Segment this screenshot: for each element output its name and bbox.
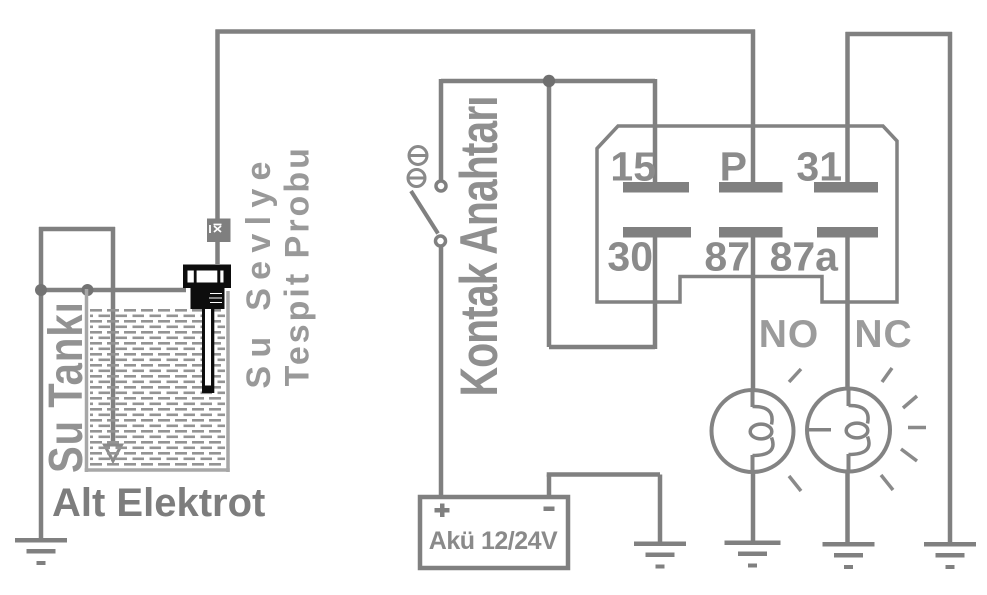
wire vertical switch top [439, 79, 444, 181]
svg-text:87: 87 [704, 234, 750, 280]
ground left [15, 538, 67, 565]
wire NC lamp to ground [845, 454, 850, 542]
battery Aku 12/24V [420, 497, 568, 568]
wire vertical junction to bottom [547, 79, 552, 347]
wire switch lower vertical to battery [439, 245, 444, 497]
relay pin bar P [719, 182, 783, 193]
svg-text:Su Sevlye: Su Sevlye [240, 153, 278, 388]
junction dot left wire [35, 284, 47, 296]
ground NC lamp [823, 542, 875, 569]
relay pin bar 30 [623, 227, 691, 238]
svg-text:Alt Elektrot: Alt Elektrot [52, 481, 265, 525]
relay pin bar 31 [814, 182, 878, 193]
junction dot tank wall [82, 284, 94, 296]
wire NO lamp to ground [751, 455, 756, 541]
wire vertical down to relay pin P [751, 30, 756, 187]
rays around NC lamp [789, 368, 926, 491]
tank left wall [85, 289, 89, 472]
svg-text:NO: NO [759, 313, 820, 356]
ground far right [924, 542, 976, 569]
svg-text:30: 30 [607, 234, 653, 280]
tank bottom [85, 468, 230, 472]
lower electrode arrowhead [105, 445, 122, 461]
svg-text:Su Tankı: Su Tankı [40, 301, 93, 473]
water hatching [90, 309, 225, 468]
wire far right vertical to ground [948, 32, 953, 542]
wire vertical down to relay pin 31 [845, 32, 850, 186]
relay pin bar 87a [817, 227, 878, 238]
wire battery minus down to ground [658, 475, 663, 543]
wire switch horizontal to relay pin 15 [441, 79, 655, 84]
svg-text:Akü 12/24V: Akü 12/24V [429, 527, 558, 555]
junction dot switch line [543, 75, 555, 87]
lamp NC [807, 389, 890, 472]
switch blade [411, 191, 438, 234]
wire lower electrode vertical [111, 227, 116, 448]
svg-text:P: P [720, 144, 747, 190]
switch contact circle top [436, 181, 446, 191]
svg-text:NC: NC [854, 313, 912, 356]
wire left top horizontal [39, 227, 115, 232]
wire battery minus up [547, 475, 552, 498]
probe Su Seviye Tespit Probu body [183, 265, 231, 394]
tank right wall [226, 291, 230, 472]
wire left vertical to ground [39, 227, 44, 538]
relay pin bar 15 [623, 182, 689, 193]
relay outline [597, 126, 897, 302]
connector square on probe wire [207, 219, 231, 243]
wire top right horizontal [846, 32, 953, 37]
wire vertical pin 15 drop [653, 79, 658, 186]
svg-text:15: 15 [610, 144, 656, 190]
wire top main horizontal from probe to relay pin P [216, 29, 756, 34]
svg-text:31: 31 [796, 144, 842, 190]
relay pin bar 87 [719, 227, 783, 238]
wire vertical down to probe [215, 30, 220, 265]
ground battery minus [634, 542, 686, 569]
ground NO lamp [725, 541, 781, 568]
svg-text:Tespit Probu: Tespit Probu [279, 145, 317, 386]
svg-text:87a: 87a [770, 234, 840, 280]
wire battery minus horizontal [547, 472, 660, 477]
lamp NO [712, 390, 794, 472]
wire vertical pin 30 riser [653, 237, 658, 349]
svg-text:Kontak Anahtarı: Kontak Anahtarı [449, 96, 508, 396]
wire pin 87 down to NO lamp [751, 237, 756, 407]
ignition key icon [408, 147, 428, 187]
switch contact circle bottom [436, 236, 446, 246]
wire horizontal low to pin 30 [549, 345, 655, 350]
wire pin 87a down to NC lamp [845, 237, 850, 406]
wire horizontal to probe [36, 288, 186, 293]
